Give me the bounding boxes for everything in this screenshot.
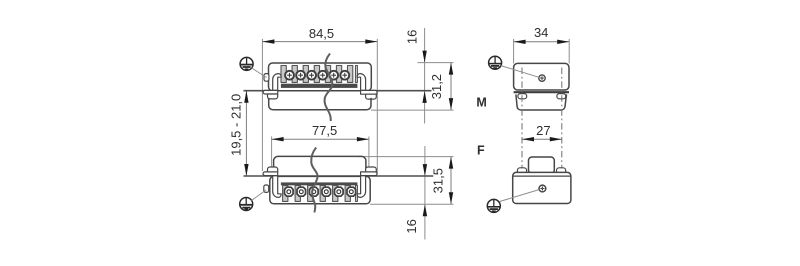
male hood screw [539,75,545,81]
dimension 34 [514,25,570,63]
flange line (female view) [244,175,434,177]
male hood bucket [516,94,567,110]
svg-text:31,2: 31,2 [429,74,444,99]
dimension 27 [522,123,562,142]
male right retaining clip [357,74,365,91]
male break squiggle [325,54,333,122]
male left retaining clip [273,74,281,91]
female right clip foot [361,172,377,176]
female hood bump [529,157,555,174]
male terminal screws [285,71,349,80]
male hood bottom thick edge [514,91,569,93]
female break squiggle [311,148,317,213]
svg-text:84,5: 84,5 [309,26,334,41]
ground symbol (female side) [487,199,500,212]
leader line (female side ground) [500,190,539,202]
male hood side body [514,63,569,90]
dimension 31,5 [358,157,454,205]
male mating shroud [269,98,371,110]
female terminal strip top band [281,182,358,185]
male insert upper body [269,63,372,91]
svg-text:34: 34 [534,25,548,40]
female left retaining clip [273,176,281,198]
dimension 84,5 [262,26,377,173]
female left clip foot [263,172,278,176]
dimension 19,5 - 21,0 [229,91,249,176]
female left foot pad [268,167,278,172]
female insert body [270,176,370,203]
svg-text:31,5: 31,5 [431,168,446,193]
male PE tab (left edge) [264,74,269,82]
leader line (male ground) [252,68,267,78]
female terminal posts [283,185,358,201]
male terminal strip bottom band [281,84,358,88]
female right foot pad [366,167,377,172]
female PE tab (left edge) [264,185,269,192]
dimension 77,5 [272,123,369,172]
female hood screw [539,185,546,192]
male hood projection dash lines [521,68,523,172]
svg-text:77,5: 77,5 [312,123,337,138]
svg-text:19,5 - 21,0: 19,5 - 21,0 [229,94,244,156]
male hood left loop [518,94,527,99]
female mating shroud [274,156,366,168]
svg-text:27: 27 [536,123,550,138]
dimension 31,2 [371,63,454,111]
dimension 16 (bottom right) [404,146,427,240]
ground symbol (female front) [240,198,253,211]
male right clip foot [361,90,378,94]
flange line B (male view) [244,90,432,92]
female terminal hex nuts [285,187,356,196]
svg-text:16: 16 [404,30,419,44]
female hood right tab [557,168,566,174]
leader line (female ground) [252,190,267,201]
male terminal posts [281,66,357,83]
male hood right loop [557,94,566,99]
ground symbol (male side) [489,56,502,69]
dimension 16 (top right) [404,28,453,124]
female hood top inner line [513,175,571,177]
svg-text:M: M [476,96,486,110]
female hood side body [513,172,571,203]
female hood left tab [517,168,526,174]
male right foot pad [366,94,377,99]
leader line (male side ground) [501,66,539,78]
svg-text:F: F [477,143,485,157]
male left clip foot [263,90,278,94]
svg-text:16: 16 [404,219,419,233]
female right retaining clip [357,176,365,198]
ground symbol (male front) [240,57,253,70]
male left foot pad [268,94,278,99]
